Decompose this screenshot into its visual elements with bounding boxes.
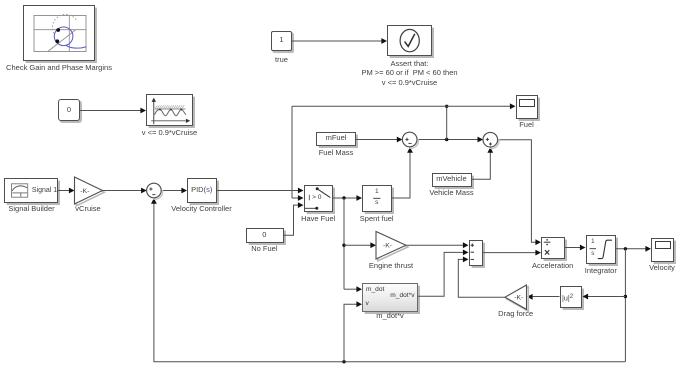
svg-text:-K-: -K- bbox=[383, 243, 392, 250]
svg-text:-K-: -K- bbox=[514, 295, 523, 302]
svg-text:-K-: -K- bbox=[80, 188, 89, 195]
